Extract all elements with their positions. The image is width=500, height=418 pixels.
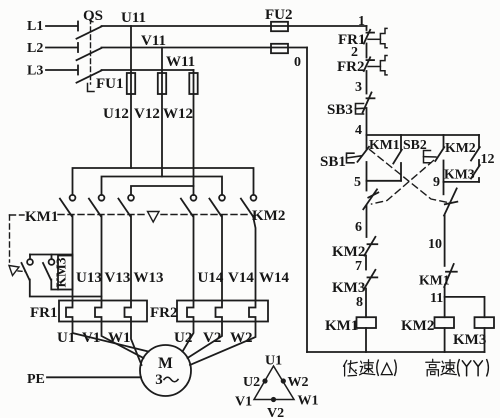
linkage dashed SB2 to left NC xyxy=(372,161,434,205)
wire V11 xyxy=(102,47,308,49)
wire V2 to motor xyxy=(188,322,223,359)
svg-text:KM3: KM3 xyxy=(54,257,69,287)
motor M circle xyxy=(140,345,191,396)
label low speed (delta) xyxy=(344,360,358,376)
node W2 dot xyxy=(281,378,286,383)
coil KM1 xyxy=(357,317,377,328)
linkage dashed SB1 to right NC xyxy=(370,150,449,203)
svg-text:KM2: KM2 xyxy=(332,244,365,260)
svg-text:W12: W12 xyxy=(163,106,193,122)
wire bottom rail xyxy=(307,351,485,353)
svg-text:FR2: FR2 xyxy=(150,305,178,321)
svg-text:V13: V13 xyxy=(105,270,131,286)
svg-text:FU2: FU2 xyxy=(265,7,293,23)
switch QS linkage dashed xyxy=(90,19,92,84)
svg-text:L2: L2 xyxy=(27,41,43,56)
linkage triangle symbol xyxy=(148,212,160,223)
wire node 3 xyxy=(366,71,368,94)
wire KM3 common bar xyxy=(30,254,73,256)
wire bus phase U to contacts xyxy=(73,168,254,195)
contact KM1 auxiliary NO xyxy=(400,135,402,150)
fuse FU1 element 2 xyxy=(158,73,166,94)
linkage dashed KM1-KM2 xyxy=(58,214,145,216)
switch QS pole3 blade xyxy=(77,71,102,83)
FR2 heater element 3 xyxy=(249,301,256,322)
relay contact FR1 NC xyxy=(364,30,370,44)
svg-text:0: 0 xyxy=(294,55,301,70)
svg-text:7: 7 xyxy=(355,259,362,274)
svg-text:KM3: KM3 xyxy=(332,280,365,296)
svg-text:U2: U2 xyxy=(243,375,260,390)
button SB2 NO start xyxy=(443,135,445,147)
svg-text:W1: W1 xyxy=(298,394,319,409)
wire control main drop xyxy=(366,26,368,30)
svg-text:W13: W13 xyxy=(134,270,164,286)
svg-text:11: 11 xyxy=(430,291,443,306)
svg-text:L1: L1 xyxy=(27,19,43,34)
svg-text:M: M xyxy=(158,355,173,372)
wire below KM2 pole3 xyxy=(253,216,256,301)
FR1 heater element 1 xyxy=(66,301,73,322)
wire W2 to motor xyxy=(190,322,256,366)
wire node 5 rail xyxy=(367,180,402,182)
svg-text:SB1: SB1 xyxy=(320,154,346,170)
coil KM3 xyxy=(475,317,495,328)
wire control left rail node 0 xyxy=(306,48,308,353)
wire below KM1 pole3 xyxy=(130,216,132,301)
svg-text:4: 4 xyxy=(355,123,362,138)
thermal relay FR1 heater box xyxy=(59,301,147,322)
wire phase V drop xyxy=(161,48,163,177)
svg-text:1: 1 xyxy=(358,14,365,29)
fuse FU2 element 1 xyxy=(271,22,288,31)
FR1 heater element 3 xyxy=(125,301,132,322)
contact KM3 auxiliary NO xyxy=(478,160,480,166)
wire bus phase W to KM1 pole3 xyxy=(131,186,194,195)
linkage dashed KM1 to KM3 xyxy=(10,214,25,216)
switch QS pole1 contact tick xyxy=(77,22,79,31)
svg-text:V2: V2 xyxy=(267,406,284,418)
svg-text:U12: U12 xyxy=(103,106,129,122)
svg-text:2: 2 xyxy=(351,45,358,60)
svg-text:KM1: KM1 xyxy=(25,209,58,225)
svg-text:KM1: KM1 xyxy=(419,273,450,288)
FR2 heater element 2 xyxy=(216,301,223,322)
wire node 9 rail xyxy=(444,181,480,183)
KM3 label box xyxy=(58,256,73,290)
node V2 dot xyxy=(271,397,276,402)
wire phase W drop xyxy=(193,70,195,195)
winding diagram delta xyxy=(254,366,294,400)
wire W1 to motor xyxy=(131,322,142,366)
svg-text:PE: PE xyxy=(27,372,45,387)
svg-text:5: 5 xyxy=(354,175,361,190)
svg-text:V14: V14 xyxy=(228,270,254,286)
contact KM1 interlock NC xyxy=(446,271,457,273)
wire L3 input xyxy=(46,69,78,71)
contactor KM3 star contact A xyxy=(29,255,31,260)
button SB1 NO start xyxy=(366,135,368,149)
svg-text:FU1: FU1 xyxy=(96,76,124,92)
svg-text:U1: U1 xyxy=(265,354,282,369)
contactor KM2 main pole 3 xyxy=(251,195,257,201)
svg-text:KM2: KM2 xyxy=(401,318,434,334)
contact KM2 interlock NC xyxy=(368,243,378,245)
wire node 4 drop xyxy=(366,108,368,135)
contactor KM1 main pole 3 xyxy=(128,195,134,201)
node U2 dot xyxy=(262,378,267,383)
svg-text:9: 9 xyxy=(433,175,440,190)
svg-text:L3: L3 xyxy=(27,64,43,79)
contact KM2 auxiliary NO xyxy=(478,135,480,147)
wire U2 to motor xyxy=(183,322,194,352)
svg-text:W2: W2 xyxy=(288,375,309,390)
wire below KM1 pole1 xyxy=(72,216,74,301)
wire V1 to motor xyxy=(102,322,144,359)
wire bus phase V to contacts xyxy=(102,177,223,195)
svg-text:3: 3 xyxy=(355,80,362,95)
button SB3 NC stop xyxy=(363,93,372,113)
fuse FU2 element 2 xyxy=(271,44,288,53)
contactor KM3 star contact B xyxy=(51,255,53,260)
contactor KM1 main pole 1 xyxy=(70,195,76,201)
switch QS linkage end hook xyxy=(88,84,95,92)
switch QS pole1 blade xyxy=(77,27,102,39)
wire L2 input xyxy=(46,47,78,49)
wire phase U drop xyxy=(130,26,132,168)
svg-text:10: 10 xyxy=(428,237,442,252)
wire node 4 rail xyxy=(367,134,480,136)
svg-text:U13: U13 xyxy=(76,270,102,286)
button SB2 NC linked contact xyxy=(366,181,368,191)
wire U11 xyxy=(102,25,367,27)
svg-text:KM3: KM3 xyxy=(444,167,475,182)
svg-text:QS: QS xyxy=(83,8,103,24)
svg-text:KM3: KM3 xyxy=(453,332,486,348)
svg-text:FR1: FR1 xyxy=(30,305,58,321)
button SB1 NC linked contact xyxy=(443,182,445,194)
wire U1 to motor xyxy=(73,322,149,352)
FR2 heater element 1 xyxy=(187,301,194,322)
wire below KM2 pole2 xyxy=(221,216,223,301)
svg-text:KM1: KM1 xyxy=(369,137,400,152)
FR1 heater element 2 xyxy=(95,301,102,322)
svg-text:V1: V1 xyxy=(235,395,252,410)
wire node 2 xyxy=(366,44,368,58)
svg-text:6: 6 xyxy=(355,220,362,235)
fuse FU1 element 3 xyxy=(189,73,197,94)
contact KM3 interlock NC xyxy=(368,276,378,278)
svg-text:KM2: KM2 xyxy=(252,208,285,224)
wire W11 xyxy=(102,69,194,71)
svg-text:3: 3 xyxy=(155,372,163,388)
contactor KM1 main pole 2 xyxy=(99,195,105,201)
label YY xyxy=(462,361,482,376)
wire L1 input xyxy=(46,25,78,27)
fuse FU1 element 1 xyxy=(127,73,135,94)
wire below KM2 pole1 xyxy=(193,216,195,301)
switch QS pole2 blade xyxy=(77,48,102,60)
svg-text:SB3: SB3 xyxy=(327,102,353,118)
parenthesis and delta xyxy=(377,360,379,377)
thermal relay FR2 heater box xyxy=(177,301,268,322)
svg-text:8: 8 xyxy=(356,295,363,310)
svg-text:V12: V12 xyxy=(134,106,160,122)
switch QS pole3 contact tick xyxy=(77,66,79,75)
svg-text:FR2: FR2 xyxy=(337,59,365,75)
svg-text:KM2: KM2 xyxy=(445,140,476,155)
svg-text:12: 12 xyxy=(481,152,495,167)
wire below KM1 pole2 xyxy=(101,216,103,301)
svg-text:U14: U14 xyxy=(198,270,224,286)
svg-text:W14: W14 xyxy=(259,270,290,286)
label high speed (YY) xyxy=(426,359,440,376)
contactor KM2 main pole 1 xyxy=(191,195,197,201)
contactor KM2 main pole 2 xyxy=(219,195,225,201)
switch QS pole2 contact tick xyxy=(77,43,79,52)
wire node 11 rail xyxy=(445,297,485,317)
svg-text:SB2: SB2 xyxy=(403,137,427,152)
svg-text:W11: W11 xyxy=(166,54,195,70)
coil KM2 xyxy=(435,317,455,328)
svg-text:U11: U11 xyxy=(121,10,146,26)
svg-text:KM1: KM1 xyxy=(325,318,358,334)
wire PE xyxy=(47,376,141,378)
relay contact FR2 NC xyxy=(364,57,370,71)
